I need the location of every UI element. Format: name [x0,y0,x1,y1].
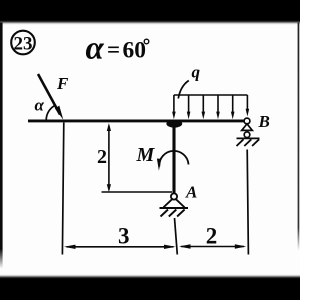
beam [28,119,246,122]
force F line [38,74,60,115]
distributed load q top line [174,94,248,96]
column to support A [172,121,175,194]
q arrow 4 [216,95,220,119]
q arrow 6 [246,95,250,117]
extension line below B [247,150,248,255]
moment M arrowhead [157,159,161,171]
support A triangle [164,199,185,208]
support B triangle [242,124,253,130]
support B roller circle [244,132,250,138]
support A pin circle [171,193,177,199]
support B ground line [237,137,260,139]
moment M arc [159,151,188,167]
svg-text:A: A [185,183,197,202]
problem number circle 23 [11,31,35,55]
q arrow 5 [231,95,235,119]
svg-text:q: q [192,63,201,82]
svg-text:B: B [258,112,270,131]
support B hatching [237,139,260,146]
angle alpha arc [46,105,55,120]
svg-text:α: α [86,31,105,67]
support A hatching [161,210,185,217]
force F arrowhead [55,106,64,120]
support A ground line [160,207,189,209]
svg-text:3: 3 [118,223,130,248]
svg-text:α: α [35,96,45,115]
svg-text:M: M [136,144,156,166]
top letterbox bar [0,0,304,23]
svg-text:=: = [107,37,120,62]
q arrow 2 [187,95,191,119]
extension line below F point [62,123,63,255]
left page edge line [0,23,3,269]
node at top of column [166,120,182,128]
q arrow 1 [172,95,176,119]
extension line below A [175,218,178,255]
dimension line 2 (horizontal) [179,244,246,248]
q arrow 3 [202,95,206,119]
svg-text:2: 2 [206,223,218,248]
svg-text:F: F [56,74,69,93]
label q leader line [178,81,189,99]
svg-text:2: 2 [97,146,107,168]
svg-text:60: 60 [123,38,147,64]
dimension line 3 [64,245,176,249]
bottom letterbox bar [0,277,304,300]
level line at A height [102,191,173,193]
vertical dimension line 2 [107,123,111,192]
right page edge line [298,23,300,251]
support B pin circle [244,118,250,124]
svg-text:23: 23 [14,34,33,55]
label alpha = 60 deg [86,31,149,67]
